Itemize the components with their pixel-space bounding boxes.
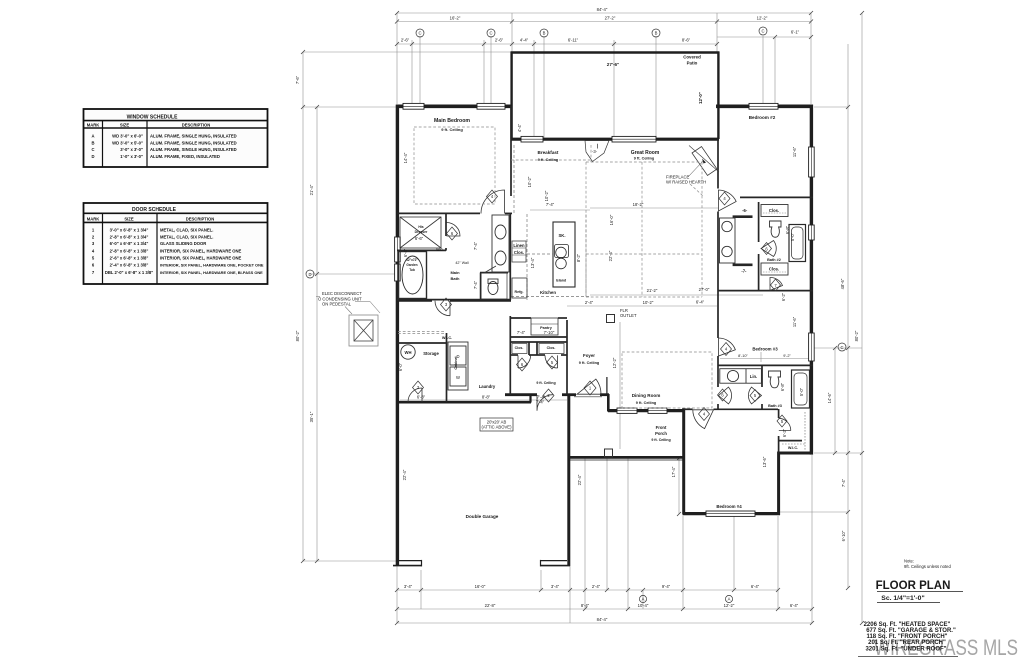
svg-text:Bath #3: Bath #3 bbox=[768, 404, 782, 408]
svg-text:6'-2": 6'-2" bbox=[782, 428, 787, 437]
window east wall bath2 tub bbox=[809, 225, 815, 240]
east exterior wall bbox=[810, 105, 813, 455]
window north bedroom2 bbox=[749, 103, 778, 109]
svg-text:WD 3'-0" x 5'-0": WD 3'-0" x 5'-0" bbox=[112, 140, 143, 145]
svg-text:6'-2": 6'-2" bbox=[781, 292, 786, 301]
top dimension line row3 left bbox=[397, 43, 512, 45]
svg-text:12'-2": 12'-2" bbox=[757, 16, 768, 21]
svg-text:14'-4": 14'-4" bbox=[403, 152, 408, 163]
bath2 closet column west wall x758.6 bbox=[758, 202, 760, 242]
svg-text:16'-0": 16'-0" bbox=[609, 214, 614, 225]
svg-text:ELEC DISCONNECT: ELEC DISCONNECT bbox=[322, 291, 362, 296]
svg-text:Sc. 1/4"=1'-0": Sc. 1/4"=1'-0" bbox=[881, 595, 924, 602]
svg-text:42"x72": 42"x72" bbox=[406, 258, 418, 262]
svg-text:Clos.: Clos. bbox=[547, 346, 556, 350]
svg-text:Note:: Note: bbox=[904, 559, 914, 564]
inner dim row great room south bbox=[567, 305, 717, 307]
svg-text:W/ RAISED HEARTH: W/ RAISED HEARTH bbox=[666, 180, 706, 185]
svg-text:-6-: -6- bbox=[742, 208, 748, 213]
svg-text:6'-4": 6'-4" bbox=[696, 300, 705, 305]
svg-text:C: C bbox=[418, 31, 421, 36]
svg-text:10'-2": 10'-2" bbox=[527, 176, 532, 187]
svg-text:DESCRIPTION: DESCRIPTION bbox=[182, 123, 211, 128]
svg-text:W.C.: W.C. bbox=[436, 248, 443, 252]
svg-text:9'-2": 9'-2" bbox=[783, 354, 791, 358]
garden tub bbox=[399, 252, 427, 299]
svg-text:6'-11": 6'-11" bbox=[568, 38, 579, 43]
wic shelf dashes bbox=[398, 331, 446, 333]
extension lines horizontal left bbox=[303, 51, 511, 53]
svg-text:A: A bbox=[728, 597, 731, 602]
svg-text:Laundry: Laundry bbox=[479, 384, 496, 389]
svg-text:9 ft. Ceiling: 9 ft. Ceiling bbox=[651, 438, 670, 442]
inner dim line foyer 12'-2" bbox=[619, 322, 621, 449]
svg-text:42" Wall: 42" Wall bbox=[455, 261, 468, 265]
svg-text:6'-4": 6'-4" bbox=[751, 584, 760, 589]
circled D marker left bbox=[306, 270, 314, 278]
svg-text:2'-6": 2'-6" bbox=[401, 38, 410, 43]
door wc pocket bbox=[484, 266, 496, 273]
svg-text:27'-2": 27'-2" bbox=[605, 16, 616, 21]
svg-text:1'-0" x 3'-0": 1'-0" x 3'-0" bbox=[120, 154, 143, 159]
svg-text:9 ft. Ceiling: 9 ft. Ceiling bbox=[636, 401, 657, 405]
svg-text:C: C bbox=[840, 345, 843, 350]
pantry south wall y337 bbox=[510, 336, 567, 338]
breakfast ceiling dashed bbox=[590, 145, 592, 162]
svg-text:2'-8" x 6'-8" x 1 3/4": 2'-8" x 6'-8" x 1 3/4" bbox=[110, 234, 149, 239]
wic west wall x778 bbox=[778, 409, 780, 418]
svg-text:Bath: Bath bbox=[451, 276, 460, 281]
window east wall bedroom2 bbox=[809, 147, 815, 177]
foyer front wall segments bbox=[505, 393, 537, 396]
svg-text:ALUM. FRAME, SINGLE HUNG, INSU: ALUM. FRAME, SINGLE HUNG, INSULATED bbox=[150, 133, 237, 138]
svg-text:Bedroom #4: Bedroom #4 bbox=[716, 504, 742, 509]
svg-text:17'-4": 17'-4" bbox=[671, 466, 676, 477]
svg-text:6'-8": 6'-8" bbox=[417, 395, 426, 400]
right dimension line inner 48'-6" bbox=[847, 44, 849, 588]
kitchen south wall y318 bbox=[510, 317, 531, 319]
svg-text:10'-2": 10'-2" bbox=[643, 300, 654, 305]
svg-text:3'-0" x 6'-8" x 1 3/4": 3'-0" x 6'-8" x 1 3/4" bbox=[110, 227, 149, 232]
svg-text:6'-8": 6'-8" bbox=[780, 382, 785, 391]
svg-text:SIZE: SIZE bbox=[120, 123, 130, 128]
svg-text:7'-10": 7'-10" bbox=[544, 330, 555, 335]
svg-text:METAL, CLAD, SIX PANEL.: METAL, CLAD, SIX PANEL. bbox=[160, 234, 213, 239]
svg-text:ALUM. FRAME, SINGLE HUNG, INSU: ALUM. FRAME, SINGLE HUNG, INSULATED bbox=[150, 140, 237, 145]
porch slab front edge bbox=[568, 456, 685, 459]
svg-text:3'-4": 3'-4" bbox=[404, 584, 413, 589]
north wall bedroom2 bbox=[716, 105, 813, 109]
svg-text:Refg.: Refg. bbox=[515, 290, 524, 294]
svg-text:INTERIOR, SIX PANEL, HARDWARE: INTERIOR, SIX PANEL, HARDWARE ONE bbox=[160, 256, 242, 261]
window mark circles top row bbox=[416, 27, 767, 37]
closet divider top y342 bbox=[510, 341, 567, 343]
svg-text:21'-2": 21'-2" bbox=[647, 288, 658, 293]
svg-text:12'-2": 12'-2" bbox=[612, 357, 617, 368]
linen shelves bbox=[512, 241, 526, 262]
svg-text:Bath #2: Bath #2 bbox=[767, 258, 781, 262]
svg-text:22'-8": 22'-8" bbox=[485, 603, 496, 608]
dimension labels right (rotated) bbox=[612, 278, 859, 541]
svg-text:9 ft. Ceiling: 9 ft. Ceiling bbox=[536, 381, 555, 385]
bath2 toilet bbox=[769, 221, 781, 237]
bedroom suite wall y213 bbox=[397, 212, 480, 214]
svg-text:WH: WH bbox=[405, 350, 412, 355]
circled A markers bottom bbox=[639, 595, 732, 602]
door bedroom2 fan bbox=[719, 190, 737, 211]
door schedule table bbox=[84, 203, 268, 284]
svg-text:DOOR SCHEDULE: DOOR SCHEDULE bbox=[132, 207, 177, 213]
hall closet shelves right bbox=[539, 344, 564, 354]
wic shelves dashes bbox=[782, 412, 805, 450]
dining ceiling dashed bbox=[622, 352, 712, 408]
AC condenser unit outside bbox=[349, 315, 378, 346]
svg-text:-7-: -7- bbox=[741, 269, 747, 274]
bath3 tub bbox=[792, 370, 810, 408]
svg-text:SK.: SK. bbox=[559, 233, 566, 238]
great room ceiling dashed grid bbox=[585, 162, 587, 297]
his dresser shelving with X bbox=[400, 217, 441, 248]
svg-text:C: C bbox=[489, 31, 492, 36]
door bath3 lobby left fan bbox=[719, 387, 732, 404]
window east wall bedroom3 bbox=[809, 333, 815, 361]
svg-text:Bedroom #3: Bedroom #3 bbox=[752, 347, 778, 352]
svg-text:WD 3'-0" x 6'-0": WD 3'-0" x 6'-0" bbox=[112, 133, 143, 138]
bath3 vanity counter bbox=[720, 369, 762, 384]
north wall main bedroom bbox=[396, 105, 512, 109]
hall west wall x510 bbox=[509, 316, 511, 395]
covered patio right wall bbox=[717, 52, 719, 139]
window bedroom4 south bbox=[706, 511, 755, 516]
svg-text:Foyer: Foyer bbox=[583, 353, 595, 358]
front entry door fan bbox=[577, 379, 601, 394]
svg-text:8'-6": 8'-6" bbox=[682, 38, 691, 43]
bed4 north wall y409 bbox=[684, 408, 693, 410]
svg-text:2'-8" x 6'-8" x 1 3/8": 2'-8" x 6'-8" x 1 3/8" bbox=[110, 248, 149, 253]
jog wall y453 bbox=[778, 452, 814, 455]
svg-text:13'-6": 13'-6" bbox=[762, 456, 767, 467]
svg-text:7'-6": 7'-6" bbox=[295, 75, 300, 84]
bath2 pocket door bars bbox=[733, 215, 753, 218]
svg-text:METAL, CLAD, SIX PANEL.: METAL, CLAD, SIX PANEL. bbox=[160, 227, 213, 232]
svg-text:Clos.: Clos. bbox=[769, 267, 779, 272]
bath3 north wall y365 bbox=[718, 364, 813, 366]
svg-text:27'-0": 27'-0" bbox=[699, 287, 710, 292]
svg-text:Covered: Covered bbox=[683, 55, 701, 60]
windows west wall bedroom bbox=[395, 237, 401, 262]
svg-text:Great Room: Great Room bbox=[631, 150, 660, 156]
rear wall under patio bbox=[511, 138, 719, 141]
svg-text:8'-8": 8'-8" bbox=[482, 395, 491, 400]
svg-text:2'-4": 2'-4" bbox=[592, 584, 601, 589]
great room column grid dashed bbox=[511, 159, 590, 161]
svg-text:9 ft. Ceiling: 9 ft. Ceiling bbox=[538, 158, 559, 162]
inner dim row great room 21'-2" bbox=[590, 294, 763, 296]
svg-text:WINDOW SCHEDULE: WINDOW SCHEDULE bbox=[127, 115, 178, 121]
svg-text:Cabinet: Cabinet bbox=[454, 356, 458, 370]
svg-text:C: C bbox=[91, 147, 94, 152]
top dimension line row3 right bbox=[717, 36, 811, 38]
dresser hall wall y250 bbox=[397, 249, 446, 251]
bath south wall y299 bbox=[397, 299, 511, 301]
garage door stub right bbox=[541, 560, 571, 567]
svg-text:D: D bbox=[308, 272, 311, 277]
top dimension line overall 84'-4" bbox=[397, 12, 811, 14]
bedroom2 south wall y197 bbox=[740, 196, 813, 198]
svg-text:-3-: -3- bbox=[592, 149, 598, 154]
svg-text:MARK: MARK bbox=[87, 216, 100, 221]
svg-text:6'-6": 6'-6" bbox=[415, 236, 424, 241]
svg-text:5'-0": 5'-0" bbox=[790, 232, 795, 241]
door storage room bbox=[435, 301, 450, 316]
refrigerator bbox=[512, 278, 527, 298]
master vanity with two sinks bbox=[492, 215, 509, 272]
svg-text:Dresser: Dresser bbox=[415, 230, 428, 234]
laundry strip north wall bbox=[397, 300, 432, 302]
svg-text:GLASS SLIDING DOOR: GLASS SLIDING DOOR bbox=[160, 241, 206, 246]
svg-text:(ATTIC ABOVE): (ATTIC ABOVE) bbox=[482, 425, 513, 430]
AC attic label box bbox=[480, 418, 513, 431]
svg-text:Tub: Tub bbox=[409, 268, 415, 272]
svg-text:DESCRIPTION: DESCRIPTION bbox=[186, 216, 215, 221]
svg-text:Patio: Patio bbox=[687, 61, 698, 66]
svg-text:6'-8": 6'-8" bbox=[785, 225, 790, 234]
door dresser/bath bbox=[447, 223, 461, 237]
water closet toilet bbox=[481, 273, 507, 299]
svg-text:W: W bbox=[456, 375, 460, 380]
svg-text:A: A bbox=[91, 133, 94, 138]
wic shelf wall y441 bbox=[779, 440, 802, 442]
svg-text:6'-0" x 6'-8" x 1 3/4": 6'-0" x 6'-8" x 1 3/4" bbox=[110, 241, 149, 246]
left dimension line outer bbox=[302, 52, 304, 561]
hall closet shelves left bbox=[512, 344, 527, 354]
svg-text:8'-4": 8'-4" bbox=[581, 603, 590, 608]
svg-text:SIZE: SIZE bbox=[124, 216, 134, 221]
window schedule table bbox=[84, 109, 268, 167]
fireplace diagonal bbox=[688, 146, 719, 178]
svg-text:80'-2": 80'-2" bbox=[295, 330, 300, 341]
door master bedroom bbox=[481, 190, 505, 214]
svg-text:16'-2": 16'-2" bbox=[450, 16, 461, 21]
bath3 interior wall x762 bbox=[761, 365, 763, 387]
door hall closet right bbox=[545, 355, 558, 368]
svg-text:INTERIOR, SIX PANEL, HARDWARE: INTERIOR, SIX PANEL, HARDWARE ONE, POCKE… bbox=[160, 263, 264, 268]
inner dim line bath right 14'-6" bbox=[834, 348, 836, 453]
svg-text:3'-4": 3'-4" bbox=[551, 584, 560, 589]
water heater circle bbox=[401, 345, 415, 359]
windows dining front bbox=[617, 408, 637, 413]
svg-text:4'-4": 4'-4" bbox=[520, 38, 529, 43]
svg-text:6'-4": 6'-4" bbox=[790, 603, 799, 608]
windows rear wall under patio bbox=[521, 136, 543, 142]
svg-text:10'-2": 10'-2" bbox=[544, 190, 549, 201]
svg-text:Kitchen: Kitchen bbox=[540, 290, 556, 295]
top dimension line row2 bbox=[397, 21, 811, 23]
svg-text:Lin.: Lin. bbox=[750, 374, 757, 379]
dimension labels bottom bbox=[404, 584, 799, 622]
svg-text:B: B bbox=[91, 140, 94, 145]
svg-text:9 ft. Ceiling: 9 ft. Ceiling bbox=[441, 127, 463, 132]
svg-text:21'-4": 21'-4" bbox=[309, 184, 314, 195]
svg-text:FLOOR PLAN: FLOOR PLAN bbox=[876, 580, 951, 592]
closet row south wall y355 bbox=[510, 354, 518, 356]
svg-text:11'-6": 11'-6" bbox=[792, 146, 797, 157]
svg-text:2'-4" x 6'-8" x 1 3/8": 2'-4" x 6'-8" x 1 3/8" bbox=[110, 263, 149, 268]
svg-text:3201 Sq. Ft. "UNDER ROOF": 3201 Sq. Ft. "UNDER ROOF" bbox=[865, 647, 946, 653]
svg-text:27'-6": 27'-6" bbox=[607, 62, 619, 67]
svg-text:6'-0": 6'-0" bbox=[398, 362, 403, 371]
kitchen island bbox=[553, 222, 575, 287]
windows north wall bedroom bbox=[395, 103, 815, 516]
svg-text:2'-6": 2'-6" bbox=[495, 38, 504, 43]
svg-text:A: A bbox=[642, 597, 645, 602]
extension lines horizontal right bbox=[814, 347, 862, 349]
top dimension line row3 patio bbox=[512, 43, 717, 45]
door wic bed4 bbox=[779, 418, 791, 430]
svg-text:Breakfast: Breakfast bbox=[538, 150, 559, 155]
patio sliding door flap bbox=[585, 141, 609, 162]
svg-text:C: C bbox=[761, 29, 764, 34]
vanity wall x510 bbox=[509, 213, 511, 300]
svg-text:12'-2": 12'-2" bbox=[724, 603, 735, 608]
svg-text:22'-4": 22'-4" bbox=[577, 474, 582, 485]
svg-text:8'-10": 8'-10" bbox=[738, 354, 748, 358]
door bath3 lobby right fan bbox=[748, 387, 761, 404]
bath2 lower fan door bbox=[770, 277, 783, 290]
svg-text:ALUM. FRAME, FIXED, INSULATED: ALUM. FRAME, FIXED, INSULATED bbox=[150, 154, 220, 159]
bedroom4 south wall bbox=[683, 512, 781, 515]
svg-text:His: His bbox=[418, 225, 423, 229]
svg-text:6'-1": 6'-1" bbox=[791, 30, 800, 35]
bedroom4 west wall bbox=[682, 408, 685, 514]
svg-text:D: D bbox=[91, 154, 94, 159]
door bedroom3 fan bbox=[719, 338, 736, 356]
bath wall x446 bbox=[445, 213, 447, 236]
svg-text:Clos.: Clos. bbox=[769, 208, 779, 213]
svg-text:ALUM. FRAME, SINGLE HUNG, INSU: ALUM. FRAME, SINGLE HUNG, INSULATED bbox=[150, 147, 237, 152]
covered patio top wall bbox=[511, 51, 720, 54]
west exterior wall bbox=[396, 105, 399, 566]
svg-text:14'-6": 14'-6" bbox=[827, 392, 832, 403]
svg-text:Dining Room: Dining Room bbox=[632, 393, 661, 398]
svg-text:6'-4": 6'-4" bbox=[403, 248, 408, 257]
hall/great wall x718 bbox=[717, 139, 719, 189]
svg-text:Island: Island bbox=[556, 279, 566, 283]
svg-text:18'-2": 18'-2" bbox=[633, 202, 644, 207]
svg-text:OUTLET: OUTLET bbox=[620, 313, 637, 318]
svg-text:Main Bedroom: Main Bedroom bbox=[434, 118, 470, 124]
svg-text:80'-2": 80'-2" bbox=[854, 330, 859, 341]
svg-text:Front: Front bbox=[656, 425, 667, 430]
garage east wall bbox=[567, 395, 570, 566]
svg-text:DBL 2'-0" x 6'-8" x 1 3/8": DBL 2'-0" x 6'-8" x 1 3/8" bbox=[105, 270, 153, 275]
svg-text:B: B bbox=[655, 31, 658, 36]
svg-text:9 ft. Ceiling: 9 ft. Ceiling bbox=[634, 157, 655, 161]
svg-text:Garden: Garden bbox=[406, 263, 417, 267]
hall east wall x567 bbox=[566, 320, 568, 395]
master tray ceiling dashed bbox=[414, 127, 495, 204]
dining front wall bbox=[608, 409, 684, 412]
svg-text:MARK: MARK bbox=[87, 123, 100, 128]
svg-text:9 ft. Ceiling: 9 ft. Ceiling bbox=[579, 361, 600, 365]
svg-text:3'-0" x 3'-0": 3'-0" x 3'-0" bbox=[120, 147, 143, 152]
inner dim line porch 17'-4" bbox=[678, 458, 680, 514]
svg-text:12'-0": 12'-0" bbox=[698, 92, 703, 104]
dimension labels left (rotated) bbox=[295, 75, 314, 422]
inner dim row bedroom3 bbox=[720, 358, 810, 360]
svg-text:7'-4": 7'-4" bbox=[546, 202, 555, 207]
bath2 toilet door fan bbox=[761, 241, 776, 257]
wc walls bbox=[480, 272, 508, 274]
porch post bbox=[605, 449, 613, 457]
svg-text:7'-4": 7'-4" bbox=[517, 330, 526, 335]
svg-text:16'-0": 16'-0" bbox=[475, 584, 486, 589]
dimension labels top bbox=[401, 7, 800, 43]
svg-text:13'-4": 13'-4" bbox=[530, 257, 535, 268]
svg-text:5'-0": 5'-0" bbox=[799, 387, 804, 396]
garage door stub left bbox=[393, 560, 422, 567]
window west wall garden tub bbox=[395, 264, 401, 281]
bath2 closet top bbox=[761, 205, 788, 217]
inner dim row kitchen/great 7'-4"/18'-2" bbox=[530, 209, 590, 211]
svg-text:7'-4": 7'-4" bbox=[536, 400, 545, 405]
bath2 lower closet bbox=[761, 263, 788, 275]
svg-text:8'-2": 8'-2" bbox=[576, 253, 581, 262]
svg-text:84'-4": 84'-4" bbox=[597, 7, 608, 12]
floor outlet box great room bbox=[607, 315, 615, 323]
svg-text:11'-6": 11'-6" bbox=[792, 316, 797, 327]
svg-text:48'-6": 48'-6" bbox=[840, 278, 845, 289]
svg-text:9'-4": 9'-4" bbox=[662, 584, 671, 589]
svg-text:INTERIOR, SIX PANEL, HARDWARE: INTERIOR, SIX PANEL, HARDWARE ONE, BI-PA… bbox=[160, 270, 263, 275]
inner dim row laundry 6'-8"/8'-8"/7'-4" bbox=[400, 399, 567, 401]
bed3 north wall y290 bbox=[718, 290, 813, 292]
door garage entry bbox=[537, 395, 553, 411]
bottom dimension line row3 overall 84'-4" bbox=[397, 622, 812, 624]
AC callout leaders bbox=[316, 297, 380, 315]
left dimension line inner bbox=[316, 107, 318, 561]
svg-text:Bedroom #2: Bedroom #2 bbox=[749, 115, 776, 120]
svg-text:9ft. Ceilings unless noted: 9ft. Ceilings unless noted bbox=[904, 564, 951, 569]
svg-text:10'-4": 10'-4" bbox=[638, 603, 649, 608]
laundry cabinet washer dryer bbox=[448, 342, 468, 390]
door bedroom4 fan bbox=[693, 410, 714, 429]
bottom dimension line row1 bbox=[397, 589, 778, 591]
bath2 tub bbox=[789, 225, 806, 262]
garage north wall bbox=[397, 401, 531, 404]
door hall closet left bbox=[518, 355, 531, 368]
bedroom4 east wall bbox=[777, 452, 780, 516]
svg-text:4'-4": 4'-4" bbox=[517, 123, 522, 132]
pantry shelves bbox=[531, 318, 558, 335]
svg-text:84'-4": 84'-4" bbox=[597, 617, 608, 622]
svg-text:Main: Main bbox=[450, 270, 460, 275]
covered patio left wall bbox=[510, 52, 512, 139]
svg-text:ON PEDESTAL: ON PEDESTAL bbox=[322, 302, 352, 307]
svg-text:Linen: Linen bbox=[513, 243, 525, 248]
svg-text:201 Sq. Ft. "REAR PORCH": 201 Sq. Ft. "REAR PORCH" bbox=[868, 640, 946, 646]
svg-text:22'-4": 22'-4" bbox=[608, 250, 613, 261]
svg-text:7'-4": 7'-4" bbox=[473, 241, 478, 250]
svg-text:6'-10": 6'-10" bbox=[841, 530, 846, 541]
svg-text:2'-6" x 6'-8" x 1 3/8": 2'-6" x 6'-8" x 1 3/8" bbox=[110, 256, 149, 261]
bottom dimension line row2 bbox=[397, 608, 812, 610]
svg-text:INTERIOR, SIX PANEL, HARDWARE: INTERIOR, SIX PANEL, HARDWARE ONE bbox=[160, 248, 242, 253]
extension lines vertical bottom bbox=[396, 566, 398, 623]
svg-text:22'-4": 22'-4" bbox=[402, 469, 407, 480]
dimension tick marks bbox=[301, 11, 864, 625]
svg-text:7'-4": 7'-4" bbox=[841, 478, 846, 487]
